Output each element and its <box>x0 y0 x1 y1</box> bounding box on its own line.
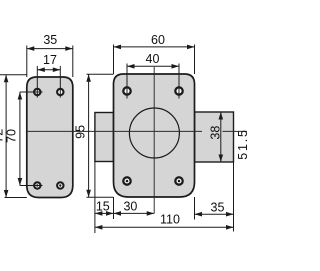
extension line below bolt (left end of 15 / 110) <box>94 162 96 234</box>
mounting plate (left view) <box>27 77 73 198</box>
horizontal centerline <box>27 130 247 132</box>
dimension 38 (barrel height) <box>209 112 223 162</box>
svg-text:110: 110 <box>160 213 180 227</box>
svg-text:17: 17 <box>43 53 57 67</box>
plate hole top-right <box>57 89 63 95</box>
dimension 35 (plate width) <box>27 33 73 77</box>
svg-text:60: 60 <box>151 33 165 47</box>
dimension 72 (plate height) <box>0 75 27 198</box>
dimension 110 (overall length) <box>95 213 234 230</box>
dimension 15 (bolt throw) <box>95 200 154 216</box>
dimension 95 (body height) <box>74 74 114 197</box>
extension line below body right edge <box>194 197 196 220</box>
svg-text:51,5: 51,5 <box>236 128 247 160</box>
vertical centerline of lock body <box>153 67 155 213</box>
svg-text:38: 38 <box>209 126 223 140</box>
svg-text:70: 70 <box>5 129 19 143</box>
dimension 17 (plate hole spacing) <box>37 53 60 97</box>
cylinder circle <box>129 108 179 158</box>
dimension 51,5 (overall height label) <box>236 128 250 160</box>
bolt (left protrusion of lock body) <box>95 113 114 162</box>
body hole top-left <box>123 87 130 94</box>
cylinder barrel (right protrusion) <box>195 112 234 162</box>
dimension 70 (plate hole vertical spacing) <box>5 92 43 186</box>
dimension 30 (backset) <box>114 199 155 215</box>
plate hole bottom-right <box>57 182 63 188</box>
extension line below barrel right edge <box>233 162 235 232</box>
body hole top-right <box>175 87 182 94</box>
extension line below body left edge <box>113 197 115 219</box>
body hole bottom-right <box>175 177 182 184</box>
dimension 35 (barrel length) <box>195 201 234 217</box>
svg-text:30: 30 <box>123 199 137 213</box>
body hole bottom-left <box>123 177 130 184</box>
lock body (right view) <box>114 74 195 197</box>
plate hole top-left <box>34 89 40 95</box>
svg-text:35: 35 <box>211 201 225 215</box>
svg-text:15: 15 <box>96 200 110 214</box>
svg-text:35: 35 <box>43 33 57 47</box>
svg-text:95: 95 <box>74 125 88 139</box>
plate hole bottom-left <box>34 182 40 188</box>
svg-text:40: 40 <box>146 52 160 66</box>
dimension 40 (body hole spacing) <box>127 52 179 99</box>
dimension 60 (body width) <box>114 33 195 74</box>
